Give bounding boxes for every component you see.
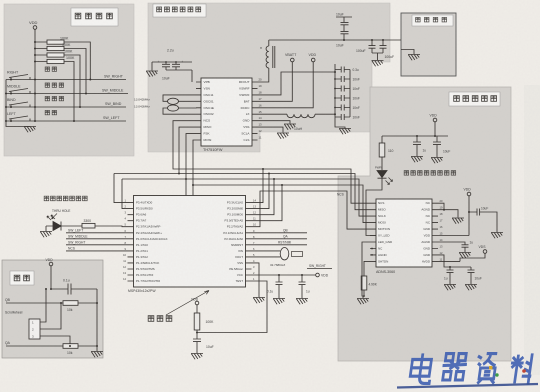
resistor R9 3300 [82,223,95,228]
MCU U1 body [134,196,246,288]
wire SW_RIGHT stub [307,268,332,270]
watermark char liao [508,353,534,384]
wire XIN [252,250,281,252]
resistor R10 10k [63,301,78,306]
wire resistor to LED [381,157,383,170]
filter cap bus [335,64,350,129]
block: RF transmit module panel [148,3,390,152]
ground (RF GND pin) [284,124,296,130]
capacitor C8 10nF [335,114,350,120]
label box: wheel title [10,271,34,285]
wire LED to XY_LED pin [366,186,382,236]
wire SPI bus A (NCS) [173,121,370,204]
wire MCU P3.2 tap [252,174,270,209]
label box: mouse buttons title [71,8,118,26]
wire VCC rail [252,274,316,276]
wire LED cathode to ground [45,226,47,231]
wire QB row [6,302,63,304]
wire SPI bus C (SCLK) [122,134,370,217]
wire QA row [6,345,63,347]
resistor R1 100K [47,40,64,44]
capacitor C9 10uF series pair [336,17,352,40]
wire MCU P3.5 to bus [122,179,128,209]
watermark accent green [495,373,498,376]
resistor R3 100K [47,53,64,57]
wire J1 pin3 [40,336,70,346]
ground (C18) [459,253,471,259]
LED D2 arrows [386,178,393,185]
wire SHTDN to resistor [364,261,370,276]
RF chip U2 right pin stubs [252,82,258,140]
terminal VDD (RF) [311,58,315,62]
block: scroll wheel panel [2,260,103,358]
crystal X1 [168,98,179,104]
wire VDD LED rail [382,122,448,136]
capacitor C10 100uF [369,40,376,53]
capacitor C18 1u (sensor right) [438,242,469,252]
wire VDD to DCDC pin [258,62,314,108]
crystal X2 leads [163,108,196,114]
capacitor C4 10nF [335,76,350,82]
junction dots (mouse block) [5,41,91,122]
wire inductor to cap bus [315,113,335,115]
crystal X2 [168,105,179,111]
terminal VDD (wheel) [49,262,53,266]
junction dots (wheel area) [45,288,98,347]
block: mouse buttons panel [4,4,134,156]
LED D1 wheel [46,222,82,231]
resistor R8 4.99K [361,276,367,290]
label bind-key (chinese) [45,96,63,100]
wire row1 SW_RIGHT [6,79,126,81]
capacitor C19 1u (bottom) [447,267,454,284]
capacitor C17 10uF (sensor right) [469,209,497,233]
terminal VBATT [291,58,295,62]
wire NC/AGND tie [438,203,458,217]
wire NCS net [66,250,128,252]
terminal VDD (sensor right top) [467,192,471,196]
ground (C13) [296,299,308,305]
capacitor C15 1u (sensor) [413,136,421,156]
crystal Y1 32.768kHz [280,248,289,260]
wire R1 to row1 [64,42,90,80]
wire J1 pin2 [40,303,61,329]
resistor R2 100K [47,46,64,50]
ground (RF decoupling) [146,71,158,77]
ground (C15) [411,157,423,163]
wire VSS to ground [252,263,260,297]
wire SPI bus B (MISO) [114,127,370,210]
capacitor C1 2.2u [162,62,170,70]
wire LED_GND down [362,242,370,298]
ground (mouse block) [24,127,36,133]
wire resistor to cap [196,330,198,339]
capacitor C6 10nF [335,95,350,101]
wire resistor to MCU [95,225,128,228]
ground (C17) [491,233,503,239]
capacitor C2 10uF [172,62,180,70]
wire R2 to row2 [64,49,86,94]
terminal VDD (reset) [195,301,199,305]
block: photo sensor panel [338,87,511,361]
ground (100uF) [372,61,384,67]
crystal X1 leads [163,95,196,101]
wire RST/NMI net [252,244,308,246]
antenna stub wire [401,50,414,55]
switch SW3 BIND lever [9,102,30,107]
wire MCU P3.1 tap [252,179,275,215]
ground (sensor AGND) [452,218,464,224]
wire SW_MIDDLE net [66,238,128,240]
watermark char qi [441,354,469,380]
wire VDD to resistor [196,305,198,313]
decoupling cap cluster wires [152,62,192,82]
wire TEST loop [197,281,267,333]
wire VSS pin [258,127,284,132]
wire right bus to ground [96,289,98,351]
crystal Y1 caps box [292,252,303,257]
label MCU (chinese) [148,316,172,322]
wire MOTION net [252,191,371,229]
capacitor C16 10uF (sensor) [433,136,441,157]
label left-key (chinese) [45,110,56,114]
watermark char zi [474,354,498,384]
label box: antenna title [412,15,453,26]
label sensor LED (chinese) [404,171,456,175]
wire XOUT [252,256,281,258]
watermark underline [397,384,538,388]
label box: photo sensor title [449,92,500,106]
switch SW4 LEFT lever [9,116,30,121]
wire RFOUT to transformer [258,40,269,82]
wire AVDD [438,253,485,261]
watermark char dian [409,353,433,383]
wire antenna feed [269,39,401,41]
resistor R5 100K [194,313,200,330]
wire VDD down [50,266,52,289]
wire MCU P3.0 tap [252,185,283,221]
capacitor C21 0.1u [51,284,97,295]
wire QB net [252,232,308,234]
label box: RF module title [153,4,206,17]
wire LX to inductor [258,113,288,115]
SEC-SENSOR2 [6,214,128,358]
ground (C14) [191,354,203,360]
capacitor C20 10uF (bottom) [468,267,475,284]
wire left ground bus [6,80,30,127]
annotation arrow THRU HOLE [52,214,58,220]
wire SW_LEFT net [66,232,128,234]
resistor R11 10k [63,344,78,349]
SEC-MCU2 [357,118,503,304]
RF chip U2 body [201,78,252,146]
capacitor C12 0.1u [276,275,283,298]
label wheel LED (chinese) [44,196,87,201]
transformer T1 primary [266,46,269,68]
junction dots (sensor) [363,135,470,297]
capacitor C3 0.3u [335,67,350,73]
VDD terminal (mouse block) [33,26,37,30]
watermark accent yellow [489,366,492,369]
wire MCU P3.3 tap [252,169,264,203]
wire resistor feeds [35,42,47,62]
wire row2 SW_MIDDLE [6,93,128,95]
LED D2 (sensor illumination) [377,171,387,187]
ground (C19) [444,285,456,291]
ground (wheel block) [91,352,103,358]
connector J1 [29,319,40,339]
ground (MCU VSS) [253,298,265,304]
sensor chip U3 right pin stubs [432,203,438,261]
terminal VDD (MCU right) [316,273,320,277]
ground (C12) [273,299,285,305]
annotation arrow MCU [166,291,209,316]
wire VDD to VDD pin [438,196,469,236]
MCU U1 left pin stubs [128,203,134,281]
label wheel-key (chinese) [45,83,63,87]
LED D1 arrows [47,215,55,220]
MCU U1 right pin stubs [246,203,252,281]
capacitor C7 10nF [335,105,350,111]
ground (sensor bottom) [357,299,369,305]
switch SW2 MIDDLE lever [9,89,30,94]
sensor chip U3 left pin stubs [370,203,376,261]
wire J1 pin1 [40,289,46,322]
terminal VDD (sensor LED) [433,118,437,122]
wire QA to bus [78,345,97,347]
label right-key (chinese) [45,67,56,71]
SEC-RF2 [114,121,370,360]
capacitor C13 1u [299,275,306,298]
wire R3 to row3 [64,55,80,107]
ground (RF VSS pin) [277,133,289,139]
wire row4 SW_LEFT [6,120,126,122]
wire row3 SW_BIND [6,106,126,108]
wire VDD rail down [34,29,36,121]
wire SW_RIGHT net [66,244,128,246]
ground (C20) [465,285,477,291]
wire QA net [252,238,308,240]
ground (antenna) [408,55,420,61]
transformer T1 core [273,46,275,68]
sensor chip U3 body [376,199,432,267]
SEC-MOUSE2 [146,17,420,146]
wire VSPRF to cap bus [258,72,336,95]
block: antenna panel [401,13,456,76]
capacitor C11 100uF [380,40,387,53]
inductor L1 10uH [287,114,315,118]
switch SW1 RIGHT lever [9,75,30,80]
RF chip U2 left pin stubs [196,82,201,140]
wire SPI bus D (MOSI) [193,140,370,223]
ground (C16) [431,158,443,164]
wire MCU P3.4 to bus [114,174,128,203]
wire bottom caps rail [438,255,471,267]
junction dots (MCU area) [178,168,303,334]
wire QB to bus [78,302,97,304]
resistor R7 110 [381,136,383,143]
junction dots (RF) [165,39,384,115]
jpeg band right margin [524,85,540,375]
terminal VDD (sensor AVDD) [483,250,487,254]
wire GND pin [258,121,291,124]
ground (filter bus) [339,129,351,135]
ground (wheel LED) [40,232,52,238]
capacitor C14 10uF [193,339,201,353]
capacitor C5 10nF [335,86,350,92]
wire VBATT to BAT pin [258,62,293,102]
wire R4 to row4 [64,62,74,122]
wire 100uF commons [372,53,383,60]
watermark accent red [522,369,526,373]
resistor R4 100K [47,59,64,63]
